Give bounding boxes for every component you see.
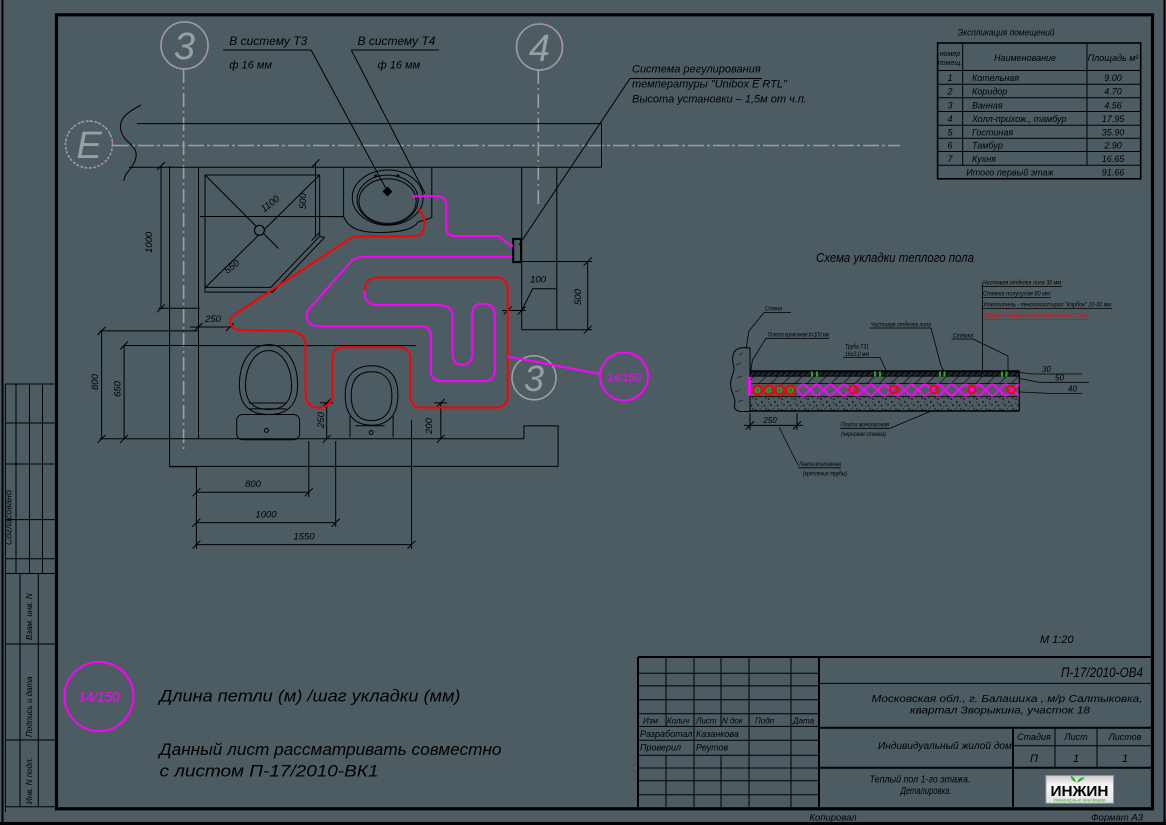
table grid	[938, 43, 1141, 179]
svg-text:Инженерные инновации: Инженерные инновации	[1054, 798, 1107, 803]
svg-text:Реутов: Реутов	[696, 743, 729, 753]
finish layer fine hatch	[750, 371, 1019, 376]
svg-text:2: 2	[946, 87, 952, 97]
svg-text:Котельная: Котельная	[972, 73, 1019, 83]
toilet1 bowl outer	[239, 345, 297, 415]
extension y343	[124, 345, 307, 347]
svg-text:Итого первый этаж: Итого первый этаж	[966, 168, 1054, 178]
pier bottom / extension	[522, 329, 592, 331]
svg-text:250: 250	[762, 416, 777, 425]
svg-text:2.90: 2.90	[1103, 141, 1122, 151]
approval mini table	[5, 384, 55, 812]
svg-text:1: 1	[947, 73, 952, 83]
sink counter bottom	[330, 216, 344, 218]
loop callout leader	[508, 357, 600, 375]
mesh band	[797, 384, 1019, 397]
svg-text:Лист: Лист	[695, 717, 717, 726]
svg-text:Гостиная: Гостиная	[972, 127, 1013, 137]
svg-text:Разработал: Разработал	[640, 729, 692, 739]
svg-text:Подпись и дата: Подпись и дата	[25, 676, 34, 737]
leader unibox	[519, 79, 630, 246]
dim steps 30 50 40	[1020, 373, 1089, 394]
svg-text:В систему Т4: В систему Т4	[358, 34, 436, 48]
grid line 4	[537, 70, 539, 205]
svg-text:Изм: Изм	[643, 717, 658, 726]
svg-text:Плита монолитная: Плита монолитная	[841, 422, 889, 429]
dim 1000 left vertical	[157, 162, 200, 312]
dim 200 vertical	[434, 399, 447, 443]
top wall right corner	[601, 124, 603, 168]
bottom black strip	[0, 822, 1166, 825]
svg-text:Тамбур: Тамбур	[972, 141, 1003, 151]
svg-text:40: 40	[1068, 385, 1077, 394]
svg-text:1: 1	[1073, 753, 1079, 765]
svg-text:Копировал: Копировал	[809, 813, 857, 824]
svg-text:Листов: Листов	[1108, 732, 1142, 742]
shower lip double line	[205, 236, 325, 292]
top wall upper line	[137, 123, 602, 125]
extension y331	[100, 330, 199, 332]
layer stack labels	[982, 279, 1111, 320]
header cells	[938, 51, 962, 67]
leader T3	[311, 50, 387, 191]
svg-text:Подп: Подп	[755, 717, 775, 726]
dim 1550 bottom	[192, 541, 415, 549]
mesh pipe circles	[849, 386, 1015, 394]
table rows	[946, 73, 1125, 178]
svg-text:35.90: 35.90	[1102, 127, 1125, 137]
toilet2 dot	[369, 431, 373, 435]
svg-text:Стена: Стена	[765, 306, 782, 313]
svg-text:Проверил: Проверил	[640, 743, 681, 753]
svg-text:Холл-прихож., тамбур: Холл-прихож., тамбур	[971, 114, 1067, 124]
stage values	[1030, 753, 1128, 765]
svg-text:(крепление трубы): (крепление трубы)	[803, 470, 847, 478]
svg-text:Стадия: Стадия	[1017, 732, 1051, 742]
left wall outer	[169, 166, 171, 467]
svg-text:Взам. инв. N: Взам. инв. N	[25, 593, 34, 640]
leader T4	[351, 50, 425, 194]
svg-text:Длина петли (м) /шаг укладки (: Длина петли (м) /шаг укладки (мм)	[157, 688, 460, 706]
svg-text:Чистовая отделка пола: Чистовая отделка пола	[871, 320, 931, 328]
svg-text:Дата: Дата	[792, 717, 815, 726]
dim 100 door	[502, 289, 556, 315]
left wall inner	[198, 167, 200, 439]
svg-text:Схема укладки теплого пола: Схема укладки теплого пола	[816, 251, 974, 265]
green ties	[812, 372, 1007, 377]
svg-text:Общая толщина чистого пола 120: Общая толщина чистого пола 120 мм	[983, 312, 1088, 320]
slab outline	[750, 371, 1019, 411]
screed hatch	[750, 376, 1019, 383]
svg-text:Индивидуальный жилой дом: Индивидуальный жилой дом	[878, 740, 1012, 752]
grid bubble 3 top	[161, 22, 208, 69]
svg-text:6: 6	[947, 141, 952, 151]
svg-text:3: 3	[524, 358, 544, 399]
svg-text:температуры "Unibox E RTL": температуры "Unibox E RTL"	[632, 79, 788, 91]
dim 250 schema	[744, 413, 803, 430]
svg-text:1: 1	[1122, 753, 1128, 765]
svg-text:с листом П-17/2010-ВК1: с листом П-17/2010-ВК1	[160, 763, 379, 781]
svg-text:16х2,0 мм: 16х2,0 мм	[845, 351, 869, 358]
loop tag circle 14/150	[65, 662, 134, 731]
grid line E dash-dot	[113, 145, 900, 147]
svg-text:Кухня: Кухня	[972, 154, 996, 164]
door pier left	[521, 167, 523, 330]
svg-text:П-17/2010-ОВ4: П-17/2010-ОВ4	[1061, 665, 1143, 680]
svg-text:30: 30	[1042, 365, 1051, 374]
svg-text:17.95: 17.95	[1102, 114, 1126, 124]
svg-text:М 1:20: М 1:20	[1040, 634, 1075, 646]
magenta supply from box	[412, 196, 513, 246]
svg-text:номер: номер	[940, 51, 960, 58]
svg-text:Экспликация помещений: Экспликация помещений	[958, 28, 1056, 39]
svg-text:91.66: 91.66	[1102, 168, 1125, 178]
svg-text:Утеплитель - пенополистирол "К: Утеплитель - пенополистирол "Карбон" 20-…	[982, 301, 1111, 309]
svg-text:ф 16 мм: ф 16 мм	[229, 60, 272, 72]
svg-text:1550: 1550	[293, 532, 315, 543]
left wall bottom cap	[170, 466, 198, 468]
svg-text:Высота установки – 1,5м от ч.п: Высота установки – 1,5м от ч.п.	[632, 94, 807, 106]
svg-text:50: 50	[1055, 374, 1064, 383]
svg-text:4: 4	[529, 28, 550, 70]
wall blob	[731, 348, 750, 412]
grid bubble 4 top	[517, 24, 563, 70]
dim 500 door	[516, 258, 592, 334]
svg-text:(черновая стяжка): (черновая стяжка)	[841, 431, 886, 438]
grid line 3	[183, 69, 185, 452]
signature rows	[640, 729, 739, 753]
svg-text:Колич: Колич	[667, 717, 689, 726]
loop callout circle	[600, 353, 648, 401]
svg-text:800: 800	[245, 479, 262, 490]
sink counter left	[343, 167, 345, 216]
svg-text:1000: 1000	[144, 231, 155, 253]
dim 250 toilet vertical	[320, 399, 333, 443]
svg-text:16.65: 16.65	[1102, 154, 1126, 164]
dim 650 left	[120, 342, 128, 443]
bottom wall lower line	[170, 465, 558, 467]
svg-text:Теплый пол 1-го этажа.: Теплый пол 1-го этажа.	[870, 774, 971, 786]
svg-text:Ванная: Ванная	[972, 100, 1003, 110]
bottom wall upper line	[100, 438, 524, 440]
dim 800 bottom	[192, 488, 312, 496]
sink counter right	[431, 167, 433, 217]
svg-text:200: 200	[424, 417, 435, 435]
toilet1 tank dot	[265, 428, 269, 432]
svg-text:Деталировка.: Деталировка.	[900, 785, 952, 797]
dim 250 upper	[190, 323, 234, 331]
pipes layer hatch bg	[750, 384, 797, 397]
svg-text:Площадь м²: Площадь м²	[1088, 53, 1140, 63]
bottom pier	[524, 426, 558, 467]
sink bowl middle	[357, 175, 418, 224]
svg-text:3: 3	[947, 100, 952, 110]
counter ledge line	[200, 216, 344, 218]
svg-text:4: 4	[947, 114, 952, 124]
shower diagonals	[205, 175, 320, 287]
svg-text:Лента монтажная: Лента монтажная	[798, 461, 841, 468]
svg-text:помещ.: помещ.	[938, 60, 962, 67]
svg-text:250: 250	[204, 314, 222, 325]
svg-text:3: 3	[174, 26, 195, 68]
svg-text:Система регулирования: Система регулирования	[632, 64, 761, 76]
toilet1 tank	[237, 415, 300, 440]
heating loop magenta	[307, 257, 512, 381]
svg-text:Лист: Лист	[1063, 732, 1088, 742]
header row labels	[643, 717, 815, 726]
unibox device	[513, 239, 521, 262]
svg-text:9.00: 9.00	[1104, 73, 1122, 83]
dim 1000 bottom	[192, 519, 339, 527]
svg-text:250: 250	[316, 411, 327, 429]
sink handle dots	[374, 174, 377, 177]
svg-text:650: 650	[113, 380, 124, 397]
svg-text:500: 500	[298, 192, 309, 209]
svg-text:Инв. N подл.: Инв. N подл.	[25, 757, 34, 804]
sink bowl inner	[359, 179, 416, 224]
svg-text:Стяжка: Стяжка	[953, 332, 973, 339]
shower dim 500	[312, 159, 320, 240]
svg-text:В систему Т3: В систему Т3	[229, 34, 307, 48]
svg-text:800: 800	[90, 373, 101, 390]
svg-text:Коридор: Коридор	[972, 87, 1007, 97]
svg-text:4.56: 4.56	[1104, 100, 1122, 110]
dim 800 left	[98, 327, 106, 443]
sink bowl outer	[352, 170, 423, 225]
outer cut line left	[2, 0, 4, 825]
grid bubble E	[66, 121, 113, 168]
svg-text:Полоса кромочная b=100 мм: Полоса кромочная b=100 мм	[768, 332, 829, 339]
svg-text:квартал Зворыкина, участок 18: квартал Зворыкина, участок 18	[910, 705, 1090, 717]
svg-text:4.70: 4.70	[1104, 87, 1122, 97]
svg-text:П: П	[1030, 753, 1038, 765]
bottom dim extensions	[196, 420, 411, 549]
concrete slab	[750, 397, 1019, 412]
svg-text:Чистовая отделка пола 30 мм: Чистовая отделка пола 30 мм	[983, 279, 1061, 287]
svg-text:N док: N док	[722, 717, 744, 726]
partition wall line	[199, 345, 417, 347]
sink faucet diamond	[383, 187, 393, 197]
toilet2 bowl inner	[351, 372, 392, 421]
top wall lower line	[129, 166, 602, 168]
pipe circles left	[753, 385, 795, 394]
svg-text:Согласовано: Согласовано	[4, 490, 14, 545]
svg-text:100: 100	[530, 275, 547, 286]
svg-text:1000: 1000	[255, 510, 277, 521]
toilet2 base	[350, 416, 393, 437]
svg-text:Казанкова: Казанкова	[696, 729, 739, 739]
stack leader vertical	[982, 283, 984, 371]
svg-text:14/150: 14/150	[607, 372, 642, 384]
svg-text:Формат А3: Формат А3	[1091, 813, 1144, 824]
svg-text:Данный лист рассматривать совм: Данный лист рассматривать совместно	[157, 741, 501, 759]
svg-text:Московская обл., г. Балашиха ,: Московская обл., г. Балашиха , м/р Салты…	[872, 693, 1143, 705]
stage header	[1017, 732, 1142, 742]
svg-text:Наименование: Наименование	[994, 53, 1056, 63]
INJIN logo	[1046, 776, 1114, 804]
svg-text:ф 16 мм: ф 16 мм	[378, 60, 421, 72]
strip label cells	[5, 574, 55, 807]
svg-text:14/150: 14/150	[78, 690, 120, 705]
wall break squiggle	[120, 105, 141, 181]
outer cut line right	[1164, 0, 1166, 825]
shower outer	[205, 175, 320, 287]
svg-text:E: E	[76, 125, 102, 167]
svg-text:Труба Т31: Труба Т31	[845, 343, 869, 351]
svg-text:Стяжка полусухая 60 мм: Стяжка полусухая 60 мм	[983, 291, 1050, 298]
svg-text:500: 500	[573, 288, 584, 305]
toilet2 bowl outer	[345, 366, 398, 425]
shower drain	[254, 225, 264, 235]
sink pedestal outline	[344, 217, 432, 233]
edge strip magenta	[748, 377, 751, 397]
grid bubble 3 bottom	[512, 356, 556, 400]
door pier right	[556, 167, 558, 330]
toilet1 seat lines	[249, 403, 286, 409]
toilet1 bowl inner	[246, 351, 292, 410]
